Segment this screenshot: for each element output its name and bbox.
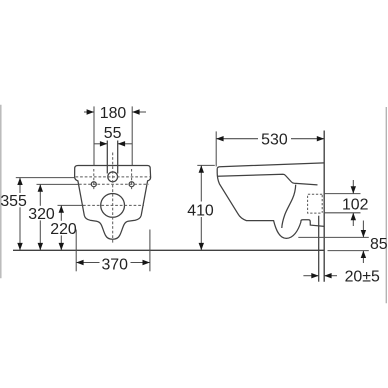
arrow 320 down bbox=[38, 243, 43, 250]
arrow 530 left bbox=[216, 136, 223, 141]
arrow 20±5 right-pointing bbox=[311, 273, 318, 278]
side view front profile and under-bowl bbox=[217, 169, 324, 239]
front view toilet outline bbox=[75, 166, 151, 240]
vertical centre line front view bbox=[112, 153, 114, 245]
85 bottom reference line bbox=[328, 250, 369, 252]
right mounting hole bbox=[129, 182, 134, 187]
arrow 102 down bbox=[351, 186, 356, 193]
arrow 370 left bbox=[76, 260, 83, 265]
arrow 85 up bbox=[361, 251, 366, 258]
ext 530 left bbox=[215, 131, 217, 166]
ext 370 right bbox=[149, 230, 151, 272]
thin dimension/extension lines bbox=[16, 106, 369, 275]
left hole vertical dash bbox=[93, 169, 95, 191]
arrowheads bbox=[17, 109, 366, 278]
arrow 355 up bbox=[17, 178, 22, 185]
dimension texts bbox=[0, 105, 387, 286]
arrow 85 down bbox=[361, 230, 366, 237]
right hole vertical dash bbox=[131, 169, 133, 191]
dim line 370 bbox=[76, 262, 99, 264]
dim line 55 shafts bbox=[94, 143, 107, 145]
arrow 370 right bbox=[143, 260, 150, 265]
dashed centre lines bbox=[76, 153, 323, 245]
side view body outline top bbox=[217, 163, 324, 169]
arrow 55 left bbox=[100, 141, 107, 146]
ext 370 left bbox=[75, 230, 77, 272]
dim line 410 bbox=[200, 165, 202, 201]
floor reference long line bbox=[13, 249, 324, 251]
side view bowl inner curve bbox=[282, 185, 296, 228]
left frame border bbox=[0, 105, 2, 278]
svg-text:102: 102 bbox=[342, 197, 369, 214]
85 arrow shafts bbox=[362, 221, 364, 238]
arrow 410 down bbox=[199, 243, 204, 250]
svg-text:370: 370 bbox=[101, 256, 128, 273]
dim line 355 bbox=[19, 178, 21, 193]
dim line 180 shafts bbox=[84, 111, 94, 113]
dim line 530 bbox=[216, 138, 258, 140]
arrow 320 up bbox=[38, 184, 43, 191]
right frame border bbox=[385, 107, 387, 303]
svg-text:20±5: 20±5 bbox=[345, 269, 380, 286]
ext 320 top bbox=[37, 183, 79, 185]
svg-text:355: 355 bbox=[0, 193, 27, 210]
arrow 530 right bbox=[317, 136, 324, 141]
svg-text:220: 220 bbox=[50, 221, 77, 238]
svg-text:410: 410 bbox=[187, 203, 214, 220]
dashed inlet box side view bbox=[308, 194, 323, 213]
arrow 102 up bbox=[351, 213, 356, 220]
svg-text:530: 530 bbox=[261, 131, 288, 148]
ext 180 left bbox=[93, 106, 95, 165]
ext 180 right bbox=[131, 106, 133, 165]
drain centre horizontal bbox=[83, 204, 144, 206]
svg-text:85: 85 bbox=[370, 236, 388, 253]
mounting holes centre horizontal bbox=[79, 183, 149, 185]
arrow 220 down bbox=[59, 243, 64, 250]
ext 102 bottom bbox=[324, 212, 360, 214]
dim line 220 bbox=[60, 205, 62, 220]
arrow 220 up bbox=[59, 205, 64, 212]
outlet pipe left line bbox=[318, 216, 320, 282]
arrow 55 right bbox=[118, 141, 125, 146]
ext 220 top bbox=[58, 204, 84, 206]
ext 102 top bbox=[324, 193, 360, 195]
left mounting hole bbox=[91, 182, 96, 187]
arrow 20±5 left-pointing bbox=[324, 273, 331, 278]
20±5 arrow shafts bbox=[303, 275, 318, 277]
flush pipe centre horizontal bbox=[76, 176, 150, 178]
drain circle (front view) bbox=[101, 194, 125, 218]
ext 355 top bbox=[16, 177, 75, 179]
wall line bbox=[323, 131, 325, 282]
ext 410 top bbox=[197, 164, 215, 166]
flush pipe circle (front view) bbox=[108, 172, 118, 182]
arrow 355 down bbox=[17, 243, 22, 250]
svg-text:55: 55 bbox=[104, 125, 122, 142]
arrow 180 left bbox=[87, 109, 94, 114]
102 arrow shafts bbox=[352, 180, 354, 194]
arrow 410 up bbox=[199, 165, 204, 172]
flush pipe side lines (55 reference) bbox=[106, 141, 108, 174]
svg-text:180: 180 bbox=[100, 105, 127, 122]
85 top reference line bbox=[298, 236, 369, 238]
dim line 320 bbox=[39, 184, 41, 205]
arrow 180 right bbox=[132, 109, 139, 114]
side view rim underside bbox=[217, 174, 317, 185]
